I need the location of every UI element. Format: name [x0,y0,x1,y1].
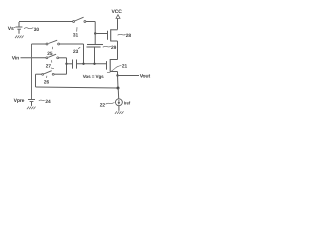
current source 22 Iref [115,99,122,106]
leader ~21 (curved) [107,66,121,73]
wire cap 29 bottom lead [94,47,96,64]
wire row of switch 25 [32,43,47,45]
battery 30 (signal source Vs) [16,22,23,34]
leader ~29 [103,45,111,48]
wire top rail from Vs to switch 23 [19,21,73,23]
transistor 28 (upper MOSFET) [108,29,118,41]
node gate of 28 / top of cap 29 [94,32,96,34]
leader ~30 [24,28,33,29]
node junction with bottom rail [117,87,120,90]
wire to Vout [118,75,140,77]
svg-text:Vout: Vout [140,74,151,80]
wire VCC lead [117,19,119,30]
tick for label 26 [46,76,48,78]
wire stub Vs to battery [14,27,16,29]
wire switch 25 drop to gate line [83,44,85,64]
node junction with cap 29 lead [93,63,95,65]
wire Vin input [21,57,46,59]
svg-text:Vs: Vs [8,26,14,32]
ground (under Vpre source) [27,107,36,110]
wire row of switch 26 [36,73,42,75]
switch 27 blade [48,54,56,57]
switch 27 contact circles [46,57,48,59]
node on coupling line [65,63,67,65]
wire riser from bottom rail to switch 26 [35,74,37,87]
wire node to capacitor 27 [67,63,73,65]
wire node to gate bar of 28 [95,33,107,35]
tick for label 25 [51,47,53,49]
wire gate line of 21 [77,63,107,65]
ground (under current source) [115,111,124,114]
capacitor 29 top plate [87,44,103,46]
wire current source to ground [118,106,120,111]
wire down to current source circle [117,88,120,99]
wire right of switch 27 [59,57,67,59]
leader tail of 27 [51,68,54,69]
wire bottom rail to output node [36,87,119,88]
node junction with switch 25 drop [82,63,84,65]
switch 26 blade [44,71,52,74]
svg-text:27: 27 [46,63,52,69]
svg-text:31: 31 [73,33,79,39]
svg-text:22: 22 [100,102,106,108]
leader 22~ [106,103,115,105]
svg-text:29: 29 [111,45,117,51]
svg-text:Vpre: Vpre [14,98,25,104]
wire right of switch 26 [54,73,66,75]
capacitor 27 right plate [76,60,78,69]
svg-text:Iref: Iref [124,101,131,106]
node source of 21 / output [116,74,118,76]
leader ~28 [118,33,126,36]
svg-text:28: 28 [126,33,132,39]
power symbol triangle VCC [116,15,120,19]
svg-text:Vos = Vgs: Vos = Vgs [83,74,104,79]
svg-text:21: 21 [122,64,128,70]
switch 25 blade [48,40,57,43]
switch 23 blade [75,17,84,21]
switch 26 contact circles [42,73,44,75]
svg-text:Vin: Vin [12,56,19,62]
wire output node down to bottom rail [117,76,120,89]
capacitor 29 bottom plate [87,46,101,48]
switch 25 contact circles [46,43,48,45]
svg-text:30: 30 [34,27,40,33]
wire source of 28 to drain of 21 [117,41,119,60]
svg-text:24: 24 [45,99,51,105]
svg-text:23: 23 [73,49,79,55]
tick for label 23 [78,47,80,48]
tick for label 27 [51,60,53,62]
leader ~24 [39,99,45,102]
wire corner down from switch 27 row to switch 26 row [66,58,68,74]
wire right of switch 25 [60,43,84,45]
switch 23 contact circles [73,21,75,23]
wire node down to capacitor 29 [94,34,96,45]
svg-text:26: 26 [44,79,50,85]
wire corner down to gate node of 28 [94,22,96,34]
label 31 tick [76,27,78,31]
transistor 21 (output MOSFET) [107,59,118,76]
ground (under Vs source) [15,36,24,39]
capacitor 27 left plate [72,60,74,69]
battery 24 (precharge source Vpre) [28,100,35,106]
wire top rail right of switch [86,21,95,23]
wire input bus vertical [31,44,33,99]
svg-text:VCC: VCC [112,9,123,15]
